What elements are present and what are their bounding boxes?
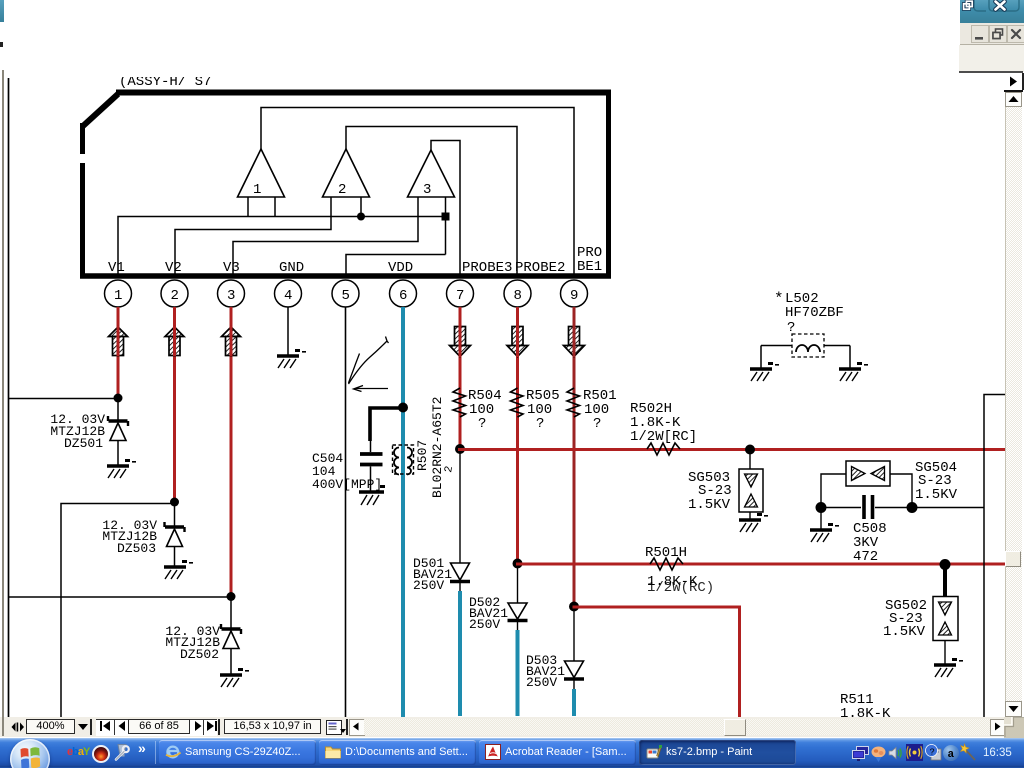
wire pin5 black vertical: [345, 307, 347, 717]
svg-text:8: 8: [514, 288, 522, 304]
wire pin6 teal vertical: [401, 307, 405, 717]
wire teal below D502: [516, 630, 520, 716]
connector arrow pin8: [507, 327, 528, 357]
quicklaunch red circle icon: [92, 745, 110, 763]
svg-text:PROBE2: PROBE2: [515, 260, 565, 276]
pin 1: [105, 280, 132, 307]
window chrome top right: [960, 0, 1024, 23]
node label ASSY-H/S7: [112, 68, 217, 90]
connector arrow pin3: [222, 327, 241, 356]
resistor R501: [567, 388, 617, 432]
vertical scrollbar down arrow: [1005, 701, 1022, 717]
annotation scribble short: [349, 354, 360, 384]
horizontal scrollbar left arrow: [349, 719, 365, 736]
inductor L502: [761, 334, 850, 368]
svg-text:BL02RN2-A65T2: BL02RN2-A65T2: [430, 397, 445, 498]
svg-text:PROBE3: PROBE3: [462, 260, 512, 276]
value label R501H: [645, 545, 714, 596]
zener diode DZ501: [108, 398, 128, 465]
svg-text:BE1: BE1: [577, 259, 602, 275]
ground SG504: [810, 523, 839, 542]
node junction opamp2 leg: [357, 213, 365, 221]
svg-text:400V[MPP]: 400V[MPP]: [312, 477, 382, 492]
ground L502 right: [839, 362, 868, 381]
op-amp IC block border: [80, 90, 611, 278]
systray avast a icon: [943, 745, 959, 761]
spark gap SG502: [933, 566, 958, 664]
wire junction to D501: [459, 452, 461, 563]
node junction pin7 red bus: [455, 444, 465, 454]
wire pin4 to ground: [287, 307, 289, 355]
horizontal scrollbar thumb: [724, 719, 746, 736]
svg-text:1: 1: [114, 288, 122, 304]
svg-text:?: ?: [593, 416, 601, 432]
pin 4: [275, 280, 302, 307]
systray radio icon: [906, 744, 923, 761]
horizontal scrollbar right arrow: [990, 719, 1006, 736]
wire teal below D501: [458, 591, 462, 716]
wire SG504 to ground: [820, 508, 822, 529]
pin 2: [161, 280, 188, 307]
connector arrow pin2: [165, 327, 184, 356]
diode D503: [564, 661, 584, 689]
svg-text:GND: GND: [279, 260, 304, 276]
svg-text:1/2W(RC): 1/2W(RC): [647, 580, 714, 596]
wire red bus line3: [573, 607, 740, 717]
toolbar empty area right: [959, 45, 1024, 72]
wire red pin3: [230, 307, 233, 597]
splitter button: [11, 722, 25, 732]
menu bar row with mdi buttons: [960, 23, 1024, 45]
wire op-amp3 minus leg: [445, 197, 447, 255]
wire op-amp1 output to pin 9: [261, 108, 574, 277]
wire C508 net: [821, 507, 984, 509]
pin 6: [390, 280, 417, 307]
svg-text:?: ?: [930, 748, 935, 758]
value label DZ502: [165, 624, 220, 662]
svg-text:?: ?: [536, 416, 544, 432]
task button explorer: [319, 740, 476, 765]
node junction pin3 bus: [227, 592, 236, 601]
value label SG503: [688, 470, 732, 513]
wire input bus L1 pin1: [118, 197, 446, 276]
op-amp 1: [238, 149, 285, 198]
svg-text:DZ502: DZ502: [180, 647, 219, 662]
svg-text:V2: V2: [165, 260, 182, 276]
quicklaunch wrench icon: [112, 743, 132, 762]
connector arrow pin1: [109, 327, 128, 356]
wire input bus L2 pin2: [175, 197, 331, 276]
wire red pin7: [459, 307, 462, 449]
wire op-amp2 output to pin 8: [346, 127, 517, 277]
vertical scrollbar track: [1005, 107, 1022, 701]
status bar: [0, 717, 1005, 737]
zener diode DZ502: [221, 597, 241, 675]
pin label V3: [223, 260, 240, 276]
node junction pin8 red bus: [513, 559, 523, 569]
ground SG502: [934, 658, 963, 677]
toolbar bottom line: [959, 71, 1023, 73]
svg-text:2: 2: [443, 465, 456, 474]
svg-text:1.5KV: 1.5KV: [915, 487, 958, 503]
svg-text:DZ501: DZ501: [64, 436, 103, 451]
value label C508: [853, 521, 887, 565]
pin 3: [218, 280, 245, 307]
wire junction pin1 to left border: [8, 398, 118, 400]
wire red overlays through connector arrows: [118, 325, 574, 357]
systray info icon: [925, 744, 942, 761]
scrollbar corner grip: [1004, 717, 1024, 738]
page layout icon: [326, 720, 342, 735]
node junction C508 right: [907, 502, 918, 513]
wire teal below D503: [572, 689, 576, 716]
svg-text:a: a: [948, 749, 955, 761]
svg-text:6: 6: [399, 288, 407, 304]
systray speaker icon: [888, 745, 904, 761]
wire thick to C504: [370, 408, 403, 452]
ground DZ502: [220, 668, 249, 687]
wire left page border: [8, 78, 10, 736]
value label D502: [469, 595, 508, 632]
node junction opamp3 leg: [442, 213, 450, 221]
value label R507: [415, 397, 445, 498]
ground C504: [359, 485, 385, 505]
svg-text:7: 7: [456, 288, 464, 304]
svg-text:9: 9: [570, 288, 578, 304]
node junction teal C504 tap: [398, 403, 408, 413]
systray orange icon: [871, 746, 886, 762]
svg-text:V1: V1: [108, 260, 125, 276]
ferrite bead R507: [393, 445, 414, 475]
vertical scrollbar thumb: [1005, 551, 1021, 567]
ground DZ501: [107, 459, 136, 478]
value label DZ501: [50, 412, 105, 451]
node junction SG502 tap: [940, 559, 951, 570]
svg-text:?: ?: [478, 416, 486, 432]
capacitor C508: [864, 495, 873, 519]
quicklaunch chevron: [138, 740, 146, 756]
pin label VDD: [388, 260, 413, 276]
diode D502: [508, 603, 528, 630]
pin 9: [561, 280, 588, 307]
svg-text:HF70ZBF: HF70ZBF: [785, 305, 844, 321]
wire red bus line2: [516, 563, 1009, 566]
svg-text:3: 3: [227, 288, 235, 304]
ground SG503: [739, 513, 768, 532]
svg-text:VDD: VDD: [388, 260, 413, 276]
wire red pin8: [516, 307, 519, 564]
wire junction to D503: [573, 609, 575, 661]
value label L502: [774, 290, 844, 336]
zoom box 400%: [26, 719, 75, 734]
capacitor C504: [360, 454, 383, 491]
first page button: [96, 719, 217, 736]
annotation arrow: [354, 386, 389, 392]
wire junction pin3 to left border: [8, 596, 231, 598]
svg-text:250V: 250V: [469, 617, 500, 632]
vertical scrollbar up arrow: [1005, 92, 1022, 107]
node junction pin9 red bus: [569, 602, 579, 612]
wire junction pin2 left and down: [61, 504, 175, 720]
op-amp 3: [408, 150, 455, 198]
value label R511: [840, 692, 891, 722]
clock: [983, 747, 1012, 759]
resistor R501H zigzag: [650, 558, 683, 570]
pin label PROBE2: [515, 260, 565, 276]
pin label GND: [279, 260, 304, 276]
node junction C508 left: [816, 502, 827, 513]
svg-text:4: 4: [284, 288, 292, 304]
svg-text:2: 2: [338, 182, 346, 198]
value label R502H: [630, 401, 697, 445]
svg-text:1.5KV: 1.5KV: [688, 497, 731, 513]
task button samsung: [159, 740, 316, 765]
spark gap SG503: [739, 452, 763, 519]
node junction SG503 tap: [745, 445, 755, 455]
taskbar: [0, 738, 1024, 768]
svg-text:2: 2: [171, 288, 179, 304]
connector arrow pin9: [564, 327, 585, 357]
scroll pane arrow button: [1004, 73, 1024, 90]
quicklaunch ebay icon: [67, 746, 87, 759]
svg-text:DZ503: DZ503: [117, 541, 156, 556]
wire input bus L4 pin5: [346, 255, 446, 277]
svg-text:V3: V3: [223, 260, 240, 276]
systray network icon: [852, 746, 869, 761]
value label C504: [312, 451, 382, 492]
node junction pin1 bus: [114, 394, 123, 403]
resistor R502H zigzag: [647, 443, 680, 455]
pin number 2 label near D501: [443, 465, 456, 474]
svg-text:472: 472: [853, 549, 878, 565]
connector arrow pin7: [450, 327, 471, 357]
page count box: [128, 719, 190, 734]
annotation scribble long: [349, 337, 389, 385]
svg-text:5: 5: [342, 288, 350, 304]
left edge fragments: [0, 0, 4, 22]
svg-text:R507: R507: [415, 440, 430, 471]
svg-text:250V: 250V: [413, 578, 444, 593]
op-amp 2: [323, 149, 370, 198]
page size box: [224, 719, 321, 734]
wire junction to D502: [517, 566, 519, 603]
svg-text:1: 1: [253, 182, 261, 198]
wire op-amp3 output to pin 7: [431, 141, 460, 277]
value label SG504: [915, 460, 958, 503]
wire red bus line1: [458, 448, 1009, 451]
spark gap SG504: [821, 461, 912, 503]
wire op-amp2 minus leg: [360, 197, 362, 217]
pin label V2: [165, 260, 182, 276]
horizontal scrollbar track: [364, 719, 990, 735]
value label DZ503: [102, 518, 157, 556]
wire input bus L3 pin3: [233, 197, 418, 276]
diode D501: [450, 563, 470, 591]
task button acrobat: [479, 740, 636, 765]
svg-text:250V: 250V: [526, 675, 557, 690]
systray wand icon: [959, 743, 979, 763]
resistor R504: [453, 388, 502, 432]
wire red pin9: [573, 307, 576, 607]
svg-text:1.5KV: 1.5KV: [883, 624, 926, 640]
svg-text:3: 3: [423, 182, 431, 198]
value label SG502: [883, 598, 927, 640]
ground L502 left: [750, 362, 779, 381]
pin label PROBE1: [577, 245, 602, 275]
value label D503: [526, 653, 565, 690]
pin label PROBE3: [462, 260, 512, 276]
pin 7: [447, 280, 474, 307]
pin label V1: [108, 260, 125, 276]
value label D501: [413, 556, 452, 593]
ground DZ503: [164, 560, 193, 579]
start orb: [10, 739, 50, 768]
zener diode DZ503: [165, 502, 185, 566]
pin 8: [504, 280, 531, 307]
resistor R505: [511, 388, 560, 432]
wire right vertical net: [984, 395, 1009, 718]
svg-text:*: *: [774, 290, 784, 308]
wire red pin2: [173, 307, 176, 502]
ground pin4: [277, 349, 306, 368]
task button paint active: [639, 740, 796, 765]
node junction pin2 bus: [170, 498, 179, 507]
wire red pin1: [117, 307, 120, 398]
pin 5: [332, 280, 359, 307]
